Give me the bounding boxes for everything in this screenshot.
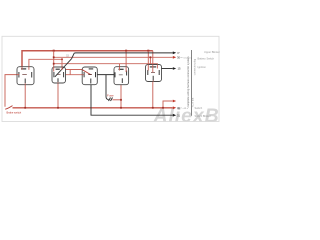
wire: bottom red bus [13, 107, 173, 109]
arrow black 31 [173, 114, 176, 117]
wire: black arrow 15 from box5 [162, 68, 173, 70]
node junction bus x53.7 [53, 50, 55, 52]
wire: box2 bottom riser [57, 83, 59, 108]
switch lever box2 (black diagonal) [55, 59, 72, 77]
box2 pin bars [56, 68, 60, 70]
box4 pin bars [114, 72, 116, 77]
svg-text:complete wiring harness connec: complete wiring harness connector system [186, 56, 190, 108]
svg-text:30: 30 [177, 106, 180, 110]
relay box2 [52, 67, 66, 83]
wire: red pair box2 to box3 lower [66, 74, 83, 76]
svg-text:31: 31 [177, 114, 180, 118]
fuse symbol [109, 98, 113, 102]
wire: B tee down into box4 pin1 [119, 64, 121, 71]
wire: link from line30 down to line B [149, 57, 151, 63]
wire: red line 30 to right arrow [54, 56, 173, 58]
node tee at 53.7,63.7 [53, 63, 55, 65]
node junction bus x148.3 [147, 50, 149, 52]
box5 pin bars [150, 66, 156, 68]
wire: bus end drop into box5 [152, 51, 154, 72]
wire: riser into box2 top-left [53, 51, 55, 72]
svg-text:connector plug: connector plug [194, 58, 197, 75]
wire: red from fuse to box4 riser [113, 99, 122, 101]
wire: black P line to arrow [72, 53, 174, 59]
wire: red pair box2 to box3 upper [66, 69, 83, 71]
svg-text:Ignition: Ignition [198, 65, 207, 69]
svg-text:Upper Blinker: Upper Blinker [204, 50, 220, 54]
wire overlay: riser stubs inside boxes [17, 65, 157, 85]
svg-text:Switch: Switch [195, 106, 203, 110]
wire: bottom branch up arrow [163, 101, 173, 108]
wire: black drop to fuse [106, 75, 109, 100]
wire: red line B y63.7 [54, 64, 158, 68]
relay box1 [17, 67, 34, 85]
wire: box4 bottom riser [120, 85, 122, 108]
wire: riser into box5 pin1 [147, 51, 149, 71]
wire: red diagonal inside box3 [82, 70, 90, 75]
arrow black P [173, 51, 176, 54]
wire: black ground from box3 bottom [91, 85, 173, 116]
node dot 163,107.8 [162, 107, 164, 109]
wire: black link box3-box4 [97, 74, 114, 76]
svg-text:P: P [178, 51, 180, 55]
frame border [2, 36, 219, 121]
arrow red 30 bottom right [173, 106, 176, 109]
svg-text:Brake switch: Brake switch [7, 111, 22, 115]
node junction bus x126.1 [125, 50, 127, 52]
wire: box5 bottom riser [152, 82, 154, 108]
wire: riser into box4 top-right [125, 51, 127, 72]
wire: red path box1 pin2 to box2 pin2 [29, 59, 62, 71]
node corner dot [61, 58, 63, 60]
separator line [191, 50, 193, 116]
svg-text:+12v bat: +12v bat [191, 97, 194, 107]
svg-text:15: 15 [178, 67, 181, 71]
box1 pin bars [21, 68, 26, 70]
svg-text:Battery Switch: Battery Switch [198, 56, 215, 60]
arrow red small top [173, 100, 176, 103]
svg-text:Fuse: Fuse [107, 93, 114, 97]
brake switch lever [5, 106, 12, 110]
node tee at 53.7,57.3 [53, 56, 55, 58]
wire: top red bus 30 [22, 51, 153, 70]
arrow red 30 right [173, 56, 176, 59]
svg-text:Switch Blinker: Switch Blinker [195, 114, 211, 118]
relay box3 [82, 67, 97, 85]
svg-text:30: 30 [177, 56, 180, 60]
box3 pin bars [89, 68, 94, 70]
node dot 150.4,57.3 [150, 56, 152, 58]
wire: box1 left feed [5, 75, 20, 107]
relay box4 [114, 67, 129, 85]
wire: box1 bottom riser [24, 85, 26, 108]
relay box5 [146, 65, 162, 82]
wire: red bridge between pair [69, 70, 71, 75]
